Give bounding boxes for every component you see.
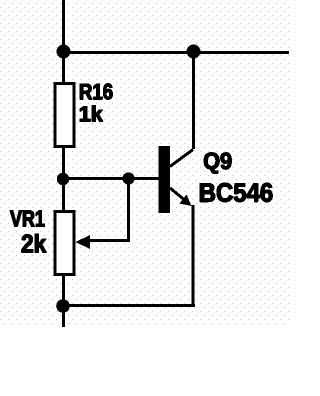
potentiometer VR1 body xyxy=(55,212,74,275)
node: junction of rail and R16 top xyxy=(57,45,71,59)
wire: wiper horizontal segment to VR1 arrow xyxy=(88,239,130,242)
transistor Q9 emitter arrowhead xyxy=(180,195,192,207)
transistor Q9 base bar xyxy=(159,146,170,213)
wire: bottom horizontal from node to emitter drop xyxy=(62,304,195,307)
wire: wiper vertical segment xyxy=(127,178,130,242)
label VR1 xyxy=(10,211,44,227)
wire: VR1 bottom lead to bottom node xyxy=(62,276,65,327)
label R16 xyxy=(80,84,112,100)
label 2k value of VR1 xyxy=(22,234,46,252)
label BC546 value of Q9 xyxy=(200,183,272,202)
label Q9 xyxy=(204,153,231,174)
wire: R16 bottom to VR1 top xyxy=(62,147,65,210)
potentiometer VR1 wiper arrowhead xyxy=(76,235,91,249)
wire: base wire from left rail to Q9 base xyxy=(63,177,159,180)
wire: top vertical supply lead into R16 xyxy=(62,0,65,82)
wire: collector vertical from rail xyxy=(192,51,195,149)
node: junction of rail and collector wire xyxy=(187,45,201,59)
wire: emitter vertical drop xyxy=(192,205,195,307)
resistor R16 body xyxy=(55,84,74,147)
transistor Q9 collector diagonal xyxy=(170,150,193,167)
node: junction of base wire and wiper wire xyxy=(122,172,134,184)
node: junction bottom emitter node xyxy=(56,299,70,313)
wire: top horizontal rail xyxy=(62,51,289,54)
label 1k value of R16 xyxy=(80,106,103,122)
node: junction base node on left rail xyxy=(57,173,69,185)
transistor Q9 emitter diagonal xyxy=(170,188,187,202)
